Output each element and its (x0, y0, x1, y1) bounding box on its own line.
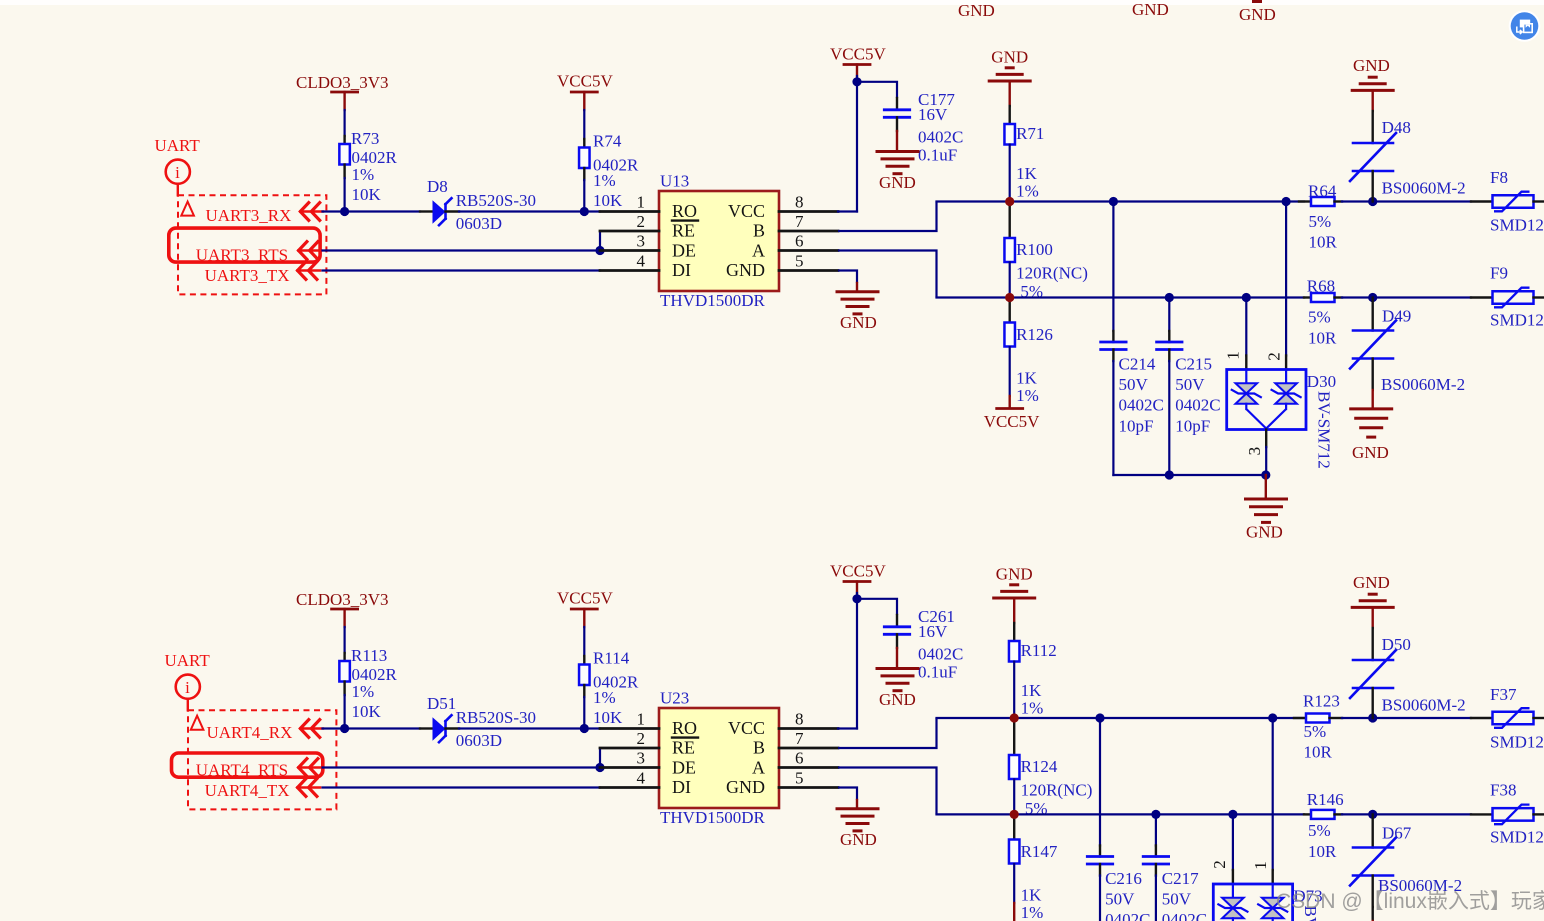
node junction D73 left/lower bus (1228, 810, 1237, 819)
svg-text:C216: C216 (1105, 869, 1142, 888)
svg-text:0402C: 0402C (1119, 396, 1164, 415)
svg-text:GND: GND (958, 1, 995, 20)
wire RX from port to diode D51 (323, 727, 421, 729)
fuse F37 (1493, 712, 1534, 725)
svg-text:0603D: 0603D (456, 214, 502, 233)
svg-text:BV-SM712: BV-SM712 (1315, 391, 1334, 469)
svg-text:2: 2 (637, 729, 646, 748)
fuse F8 lead right to edge (1534, 200, 1544, 202)
svg-text:DI: DI (672, 260, 691, 280)
svg-text:R114: R114 (593, 649, 630, 668)
fuse F37 lead right to edge (1534, 717, 1544, 719)
svg-text:A: A (752, 241, 765, 261)
svg-text:A: A (752, 758, 765, 778)
capacitor C177 (884, 108, 909, 111)
svg-text:VCC5V: VCC5V (557, 72, 613, 91)
capacitor C177 lead bottom (896, 117, 898, 131)
wire R124 to lower bus (1013, 780, 1015, 815)
svg-text:D48: D48 (1382, 118, 1411, 137)
svg-text:1%: 1% (352, 682, 375, 701)
resistor R114 (579, 665, 590, 686)
IC U13 pin 2 RE (600, 230, 659, 233)
svg-text:6: 6 (795, 232, 804, 251)
IC U23 pin 8 VCC (779, 727, 838, 730)
svg-text:8: 8 (795, 193, 804, 212)
wire CLDO3_3V3 to R73 (344, 110, 346, 136)
IC U23 pin 5 GND (779, 786, 838, 789)
resistor R64 lead right (1335, 200, 1343, 202)
svg-text:R146: R146 (1307, 790, 1344, 809)
svg-text:R126: R126 (1016, 325, 1053, 344)
node junction R100/lower bus (1005, 293, 1014, 302)
wire VCC5V to pin 8 (856, 76, 858, 212)
wire RTS from port (323, 249, 601, 251)
wire RE jog (599, 231, 601, 251)
svg-text:10R: 10R (1308, 842, 1337, 861)
wire R112 to upper bus (1013, 662, 1015, 719)
svg-text:1K: 1K (1016, 369, 1038, 388)
svg-text:SMD1206: SMD1206 (1490, 828, 1544, 847)
svg-text:F37: F37 (1490, 685, 1517, 704)
fuse F8 (1493, 195, 1534, 208)
svg-text:THVD1500DR: THVD1500DR (660, 291, 765, 310)
svg-text:5%: 5% (1304, 722, 1327, 741)
resistor R73 lead top (343, 136, 345, 145)
port UART3 dashed harness box (178, 195, 326, 294)
wire R64 to fuse F8 (1342, 200, 1471, 202)
svg-text:R74: R74 (593, 132, 622, 151)
TVS diode D30 cell 1 (1245, 370, 1247, 384)
wire A (pin 6) to lower bus (838, 251, 937, 298)
wire VCC junction to C177 (857, 82, 897, 98)
svg-text:R68: R68 (1307, 276, 1335, 295)
svg-text:BS0060M-2: BS0060M-2 (1382, 696, 1466, 715)
ground below C177 (896, 131, 898, 150)
svg-text:BS0060M-2: BS0060M-2 (1381, 375, 1465, 394)
resistor R74 (579, 148, 590, 169)
svg-text:10R: 10R (1309, 232, 1338, 251)
svg-text:RO: RO (672, 718, 697, 738)
TVS diode D67 (1353, 846, 1393, 849)
resistor R126 (1004, 323, 1015, 347)
TVS array D30 pin right wire (1285, 202, 1287, 356)
svg-text:1: 1 (637, 710, 646, 729)
svg-text:CLDO3_3V3: CLDO3_3V3 (296, 73, 389, 92)
TVS diode D48 lead bottom (1371, 171, 1373, 202)
TVS diode D49 (1353, 329, 1393, 332)
TVS array D30 common cathode V (1246, 409, 1286, 429)
resistor R68 lead right (1335, 296, 1343, 298)
capacitor C216 (1087, 855, 1112, 858)
capacitor C214 lead top (1112, 331, 1114, 342)
TVS diode D30 cell 2 (1285, 370, 1287, 384)
TVS diode D49 lead top (1371, 298, 1373, 331)
capacitor C214 (1101, 341, 1126, 344)
svg-text:1%: 1% (593, 688, 616, 707)
svg-text:10K: 10K (593, 708, 623, 727)
wire R123 to fuse F37 (1342, 717, 1471, 719)
IC U23 pin 7 B (779, 747, 838, 750)
svg-text:1%: 1% (1016, 386, 1039, 405)
resistor R71 (1004, 124, 1015, 145)
svg-text:D67: D67 (1382, 824, 1412, 843)
svg-text:10K: 10K (352, 185, 382, 204)
node junction D73 right/upper bus (1268, 713, 1277, 722)
svg-text:3: 3 (1245, 447, 1264, 456)
resistor R124 lead top (1013, 718, 1015, 756)
marker triangle (191, 716, 204, 730)
wire C214 branch upper (1112, 202, 1114, 332)
svg-text:CLDO3_3V3: CLDO3_3V3 (296, 590, 389, 609)
svg-text:1%: 1% (1021, 903, 1044, 921)
svg-text:50V: 50V (1119, 375, 1149, 394)
power port VCC5V below R126 (997, 407, 1023, 410)
resistor R112 (1009, 641, 1020, 662)
svg-text:GND: GND (840, 313, 877, 332)
svg-text:4: 4 (637, 252, 646, 271)
node junction C214/upper bus (1109, 197, 1118, 206)
wire RX from port to diode D8 (323, 210, 421, 212)
svg-text:VCC: VCC (728, 201, 765, 221)
diode D51 (schottky) (433, 717, 446, 741)
diode D51 lead right (446, 727, 460, 729)
node junction C215/rail (1165, 470, 1174, 479)
IC U23 pin 1 RO (600, 727, 659, 730)
node junction RE/DE tie (595, 246, 604, 255)
fuse F38 lead right to edge (1534, 813, 1544, 815)
svg-text:0402C: 0402C (918, 128, 963, 147)
IC U23 pin 6 A (779, 766, 838, 769)
svg-text:1: 1 (1223, 351, 1242, 360)
svg-text:F8: F8 (1490, 168, 1508, 187)
resistor R114 lead top (583, 656, 585, 665)
IC U13 pin 8 VCC (779, 210, 838, 213)
wire RTS from port (323, 766, 601, 768)
wire R146 to fuse F38 (1342, 813, 1471, 815)
svg-text:RO: RO (672, 201, 697, 221)
op-amp-style IC U23 THVD1500DR body (659, 708, 779, 808)
TVS array D73 BV-SM712 box (1213, 884, 1292, 921)
ground below C261 (896, 648, 898, 667)
svg-text:i: i (185, 678, 190, 697)
wire R114 to RX node (583, 697, 585, 729)
svg-text:2: 2 (1210, 860, 1229, 869)
svg-text:10pF: 10pF (1175, 417, 1210, 436)
TVS diode D73 cell 2 (1272, 884, 1274, 898)
node junction R71/upper bus (1005, 197, 1014, 206)
wire diode to pin 1 (459, 727, 600, 729)
IC U23 pin 2 RE (600, 747, 659, 750)
svg-text:50V: 50V (1162, 889, 1192, 908)
svg-text:DE: DE (672, 758, 696, 778)
svg-text:0.1uF: 0.1uF (918, 146, 957, 165)
svg-text:1%: 1% (1021, 699, 1044, 718)
svg-text:10K: 10K (352, 702, 382, 721)
svg-text:1K: 1K (1016, 164, 1038, 183)
marker triangle (181, 202, 194, 216)
svg-text:UART3_TX: UART3_TX (205, 266, 290, 285)
wire lower bus (A line) (937, 813, 1305, 815)
svg-text:VCC5V: VCC5V (984, 412, 1040, 431)
svg-text:SMD1206: SMD1206 (1490, 733, 1544, 752)
svg-text:B: B (753, 738, 765, 758)
wire TX from port to pin 4 (323, 269, 601, 271)
svg-text:RB520S-30: RB520S-30 (456, 191, 536, 210)
TVS array D30 pin 3 wire (1265, 430, 1267, 448)
capacitor C261 (884, 625, 909, 628)
port UART4 dashed harness box (188, 710, 336, 809)
wire R68 to fuse F9 (1342, 296, 1471, 298)
IC U13 pin 7 B (779, 230, 838, 233)
svg-text:10pF: 10pF (1119, 417, 1154, 436)
resistor R123 lead right (1330, 717, 1343, 719)
svg-text:UART: UART (165, 651, 211, 670)
TVS diode D73 cell 1 (1232, 884, 1234, 898)
capacitor C217 lead top (1155, 846, 1157, 857)
svg-text:GND: GND (879, 690, 916, 709)
svg-text:RB520S-30: RB520S-30 (456, 708, 536, 727)
capacitor C217 lead bottom (1155, 864, 1157, 876)
svg-text:D49: D49 (1382, 307, 1411, 326)
TVS diode D49 lead bottom (1371, 359, 1373, 391)
svg-text:0402C: 0402C (918, 645, 963, 664)
svg-text:R64: R64 (1308, 181, 1337, 200)
wire A (pin 6) to lower bus (838, 768, 937, 815)
svg-text:UART4_RTS: UART4_RTS (196, 761, 288, 780)
capacitor C261 lead bottom (896, 634, 898, 648)
node junction C215/lower bus (1165, 293, 1174, 302)
svg-text:R147: R147 (1021, 842, 1058, 861)
capacitor C217 (1143, 855, 1168, 858)
svg-text:B: B (753, 221, 765, 241)
wire B (pin 7) to upper bus (838, 202, 937, 232)
svg-text:GND: GND (996, 565, 1033, 584)
resistor R74 lead bottom (583, 168, 585, 180)
wire upper bus (B line) (937, 717, 1305, 719)
fuse F38 (1493, 808, 1534, 821)
wire R126 to VCC5V (1009, 347, 1011, 396)
svg-text:1%: 1% (1016, 182, 1039, 201)
capacitor C177 lead top (896, 98, 898, 109)
diode D8 lead left (420, 210, 433, 212)
wire VCC5V to pin 8 (856, 593, 858, 729)
TVS array D30 BV-SM712 box (1227, 370, 1306, 430)
wire VCC junction to C261 (857, 599, 897, 615)
svg-text:GND: GND (1352, 443, 1389, 462)
svg-text:120R(NC): 120R(NC) (1021, 780, 1093, 799)
wire pin 5 to ground (838, 788, 857, 801)
wire B (pin 7) to upper bus (838, 718, 937, 748)
svg-text:10R: 10R (1308, 328, 1337, 347)
resistor R68 (series 10R) (1311, 293, 1335, 302)
svg-text:SMD1206: SMD1206 (1490, 311, 1544, 330)
svg-text:5%: 5% (1308, 308, 1331, 327)
svg-text:5: 5 (795, 252, 804, 271)
svg-text:7: 7 (795, 212, 804, 231)
svg-text:GND: GND (879, 173, 916, 192)
svg-text:THVD1500DR: THVD1500DR (660, 808, 765, 827)
svg-text:GND: GND (1353, 56, 1390, 75)
svg-text:0402C: 0402C (1105, 910, 1150, 921)
svg-text:16V: 16V (918, 105, 948, 124)
svg-text:BS0060M-2: BS0060M-2 (1382, 179, 1466, 198)
resistor R123 (series 10R) (1306, 714, 1330, 723)
svg-text:0402C: 0402C (1162, 910, 1207, 921)
svg-text:5%: 5% (1308, 821, 1331, 840)
fuse F9 lead right to edge (1534, 296, 1544, 298)
svg-text:VCC5V: VCC5V (557, 589, 613, 608)
wire VCC5V to R114 (583, 627, 585, 656)
TVS diode D50 (1353, 659, 1393, 662)
resistor R64 lead left (1299, 200, 1311, 202)
svg-text:RE: RE (672, 738, 695, 758)
capacitor C216 lead top (1099, 846, 1101, 857)
fuse F37 lead left (1471, 717, 1493, 719)
resistor R71 lead top (1009, 106, 1011, 125)
wire R74 to RX node (583, 180, 585, 212)
svg-text:1: 1 (1251, 861, 1270, 870)
svg-text:2: 2 (1265, 352, 1284, 361)
svg-text:RE: RE (672, 221, 695, 241)
resistor R73 lead bottom (343, 165, 345, 179)
wire R113 to RX node (344, 695, 346, 729)
resistor R113 lead top (343, 653, 345, 662)
svg-text:R124: R124 (1021, 757, 1058, 776)
TVS diode D50 lead bottom (1371, 688, 1373, 718)
svg-text:i: i (175, 163, 180, 182)
fuse F38 lead left (1471, 813, 1493, 815)
TVS diode D48 (1353, 142, 1393, 145)
node junction D67/bus (1368, 810, 1377, 819)
svg-text:5: 5 (795, 769, 804, 788)
resistor R126 lead top (1009, 298, 1011, 324)
svg-text:8: 8 (795, 710, 804, 729)
resistor R113 lead bottom (343, 682, 345, 696)
node junction D30 right/upper bus (1282, 197, 1291, 206)
TVS diode D67 lead bottom (1371, 876, 1373, 908)
svg-text:GND: GND (1239, 5, 1276, 24)
svg-text:GND: GND (840, 830, 877, 849)
svg-text:10K: 10K (593, 191, 623, 210)
node junction D30 left/lower bus (1242, 293, 1251, 302)
ground at pin 5 (837, 290, 878, 293)
resistor R113 (339, 661, 350, 682)
wire R71 to upper bus (1009, 145, 1011, 202)
capacitor C215 lead top (1168, 331, 1170, 342)
wire caps bottom rail (1112, 361, 1114, 475)
svg-text:R123: R123 (1303, 692, 1340, 711)
wire CLDO3_3V3 to R113 (344, 627, 346, 653)
TVS diode D50 lead top (1371, 628, 1373, 660)
node junction R112/upper bus (1010, 713, 1019, 722)
resistor R146 lead left (1304, 813, 1311, 815)
IC U13 pin 4 DI (600, 269, 659, 272)
svg-text:CSDN @【linux嵌入式】玩家: CSDN @【linux嵌入式】玩家 (1276, 890, 1544, 913)
svg-text:GND: GND (1132, 0, 1169, 19)
node junction C217/lower bus (1151, 810, 1160, 819)
resistor R146 lead right (1335, 813, 1343, 815)
TVS array D73 pin right wire (1272, 718, 1274, 870)
svg-text:R112: R112 (1021, 641, 1057, 660)
node junction R74/RX (580, 207, 589, 216)
capacitor C215 (1157, 341, 1182, 344)
node junction D50/bus (1368, 713, 1377, 722)
ground below D30 (1265, 475, 1267, 498)
node junction R114/RX (580, 724, 589, 733)
svg-text:GND: GND (991, 48, 1028, 67)
wire pin 5 to ground (838, 271, 857, 284)
wire R73 to RX node (344, 178, 346, 212)
TVS diode D67 lead top (1371, 814, 1373, 847)
svg-text:1%: 1% (593, 171, 616, 190)
node UART4_RTS (highlighted) (172, 753, 323, 777)
svg-text:F38: F38 (1490, 781, 1516, 800)
wire VCC5V to R74 (583, 110, 585, 139)
wire R147 to VCC5V (1013, 864, 1015, 903)
svg-text:D8: D8 (427, 177, 448, 196)
resistor R112 lead top (1013, 623, 1015, 642)
fuse F9 (1493, 291, 1534, 304)
svg-text:D50: D50 (1382, 635, 1411, 654)
svg-text:0402C: 0402C (1175, 396, 1220, 415)
node junction R113/RX (340, 724, 349, 733)
svg-text:50V: 50V (1175, 375, 1205, 394)
TVS array D30 pin left wire (1245, 298, 1247, 356)
ground stem below D67 (clipped) (1371, 907, 1373, 921)
svg-text:C214: C214 (1119, 355, 1156, 374)
svg-text:1: 1 (637, 193, 646, 212)
svg-text:VCC: VCC (728, 718, 765, 738)
floating button (blue circle) (1509, 10, 1541, 42)
resistor R123 lead left (1294, 717, 1306, 719)
svg-text:0.1uF: 0.1uF (918, 663, 957, 682)
op-amp-style IC U13 THVD1500DR body (659, 191, 779, 291)
wire TX from port to pin 4 (323, 786, 601, 788)
node UART3_RTS (highlighted) (169, 228, 320, 262)
resistor R146 (series 10R) (1311, 810, 1335, 819)
svg-text:DI: DI (672, 777, 691, 797)
node junction RE/DE tie (595, 763, 604, 772)
node junction D49/bus (1368, 293, 1377, 302)
svg-text:10R: 10R (1304, 743, 1333, 762)
ground below D49 (1371, 390, 1373, 407)
svg-text:U13: U13 (660, 172, 689, 191)
capacitor C261 lead top (896, 615, 898, 626)
svg-text:0603D: 0603D (456, 731, 502, 750)
svg-text:SMD1206: SMD1206 (1490, 216, 1544, 235)
IC U13 pin 6 A (779, 249, 838, 252)
svg-text:1%: 1% (352, 165, 375, 184)
wire C215 branch (1168, 298, 1170, 332)
wire caps to bottom edge (1099, 876, 1101, 921)
wire lower bus (A line) (937, 296, 1305, 298)
svg-text:3: 3 (637, 232, 646, 251)
svg-text:GND: GND (726, 260, 765, 280)
wire RE jog (599, 748, 601, 768)
IC U23 pin 4 DI (600, 786, 659, 789)
diode D8 (schottky) (433, 200, 446, 224)
svg-text:D30: D30 (1307, 372, 1336, 391)
svg-text:UART3_RX: UART3_RX (206, 206, 292, 225)
svg-text:U23: U23 (660, 689, 689, 708)
TVS diode D48 lead top (1371, 111, 1373, 143)
svg-text:UART4_TX: UART4_TX (205, 781, 290, 800)
resistor R124 (termination) (1009, 755, 1020, 779)
resistor R64 (series 10R) (1311, 197, 1335, 206)
svg-text:VCC5V: VCC5V (830, 562, 886, 581)
node junction D48/bus (1368, 197, 1377, 206)
node junction pin3/rail (1261, 470, 1270, 479)
